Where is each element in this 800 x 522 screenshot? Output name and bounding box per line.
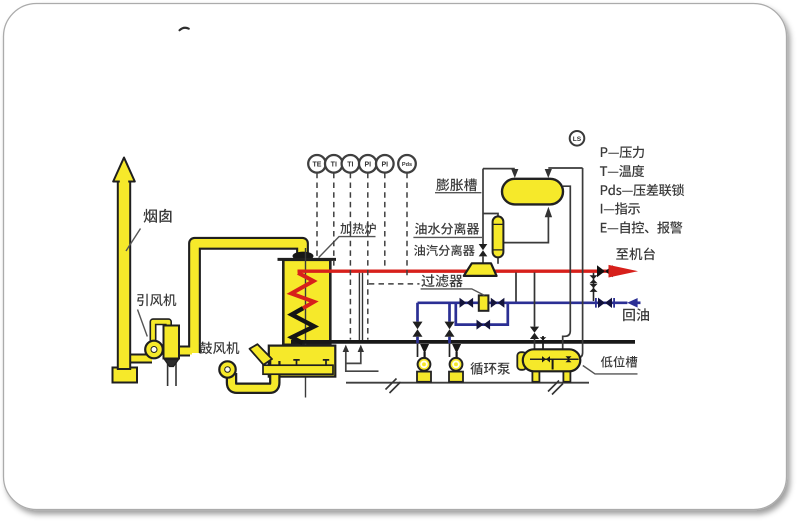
svg-text:PI: PI xyxy=(381,161,388,168)
instrument dashed leads xyxy=(317,173,420,340)
svg-text:Pds: Pds xyxy=(402,162,412,168)
red supply line 至机台 xyxy=(298,270,610,273)
filter 过滤器 body xyxy=(479,295,489,310)
main oil return header xyxy=(291,340,635,344)
label 油水分离器 xyxy=(413,222,483,237)
label 烟囱 xyxy=(126,209,172,251)
header drain L-pipes with up arrows xyxy=(346,348,379,371)
heater centre line xyxy=(305,248,307,398)
fill line red to low tank with valve xyxy=(530,273,539,351)
induced draft fan 引风机 circle xyxy=(145,341,163,359)
label 引风机 xyxy=(137,294,176,337)
connector red to blue xyxy=(515,273,517,302)
instrument bubbles TE TI TI PI PI Pds xyxy=(308,155,416,173)
blue line shutoff valve xyxy=(596,298,614,308)
circulation pumps 循环泵 xyxy=(417,344,431,382)
filter bypass valve xyxy=(477,320,491,330)
blue return line 回油 xyxy=(418,303,641,343)
low level tank legs xyxy=(532,367,570,381)
label 膨胀槽 xyxy=(435,178,481,192)
oil-vapour separator boat on red line xyxy=(464,263,497,276)
ground line xyxy=(346,382,589,384)
label 回油 xyxy=(623,308,649,321)
label 鼓风机 xyxy=(200,342,240,355)
cyclone cylinder legs xyxy=(168,362,176,386)
small stray mark near top xyxy=(180,28,189,31)
expansion tank feed lines with arrows xyxy=(483,168,583,358)
pipe chimney to fan xyxy=(126,354,152,364)
heater 加热炉 body xyxy=(278,259,337,344)
label 油汽分离器 xyxy=(414,245,475,257)
twin valves between red and blue at machine side xyxy=(590,273,598,301)
pipe break marks xyxy=(386,379,564,395)
flue duct from heater top to cyclone xyxy=(178,243,303,353)
heater flue collar xyxy=(293,252,314,261)
burner arm inside furnace box xyxy=(263,360,333,375)
blue return arrow (pointing left) xyxy=(627,298,637,308)
low level tank nozzle from header xyxy=(540,336,547,350)
label 低位槽 with pointer xyxy=(583,356,638,374)
red supply arrowhead 至机台 xyxy=(609,265,639,278)
pump suction valves on blue drops xyxy=(413,322,423,337)
tank internal fittings xyxy=(542,356,572,362)
label 过滤器 with pointer xyxy=(421,274,485,295)
svg-text:TE: TE xyxy=(313,161,322,168)
svg-text:TI: TI xyxy=(347,161,353,168)
expansion tank 膨胀槽 xyxy=(502,179,563,205)
double sensing lines right of heater xyxy=(359,273,362,340)
separator drain valve xyxy=(479,244,488,256)
svg-text:PI: PI xyxy=(364,161,371,168)
label 加热炉 with pointer xyxy=(319,223,376,258)
low level tank 低位槽 body xyxy=(517,349,580,371)
furnace box under heater xyxy=(250,344,336,376)
label 至机台 xyxy=(616,248,655,261)
fan outlet pipe (induced draft fan to cyclone) xyxy=(153,322,169,344)
oil-water separator 油水分离器 xyxy=(493,216,504,257)
chimney base xyxy=(113,368,138,383)
label 循环泵 xyxy=(470,362,510,375)
svg-text:LS: LS xyxy=(573,136,582,143)
filter outlet valve xyxy=(491,298,505,308)
red supply valve xyxy=(597,265,613,277)
heater coil black part xyxy=(292,308,315,343)
legend text xyxy=(600,146,684,234)
cyclone cylinder xyxy=(164,326,180,367)
burner pipe from blower xyxy=(232,361,275,388)
blower 鼓风机 circle xyxy=(219,361,235,377)
svg-text:TI: TI xyxy=(331,161,337,168)
filter inlet valve xyxy=(460,298,474,308)
chimney 烟囱 stack with arrow xyxy=(113,158,135,370)
arrows into expansion tank xyxy=(511,169,552,217)
level switch LS bubble xyxy=(570,131,585,146)
heater coil red part xyxy=(291,273,314,308)
